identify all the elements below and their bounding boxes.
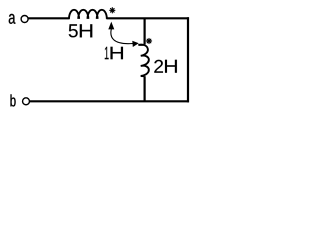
wire: a to inductor L1 [28, 17, 69, 19]
wire: right edge vertical [187, 17, 189, 102]
value label 2H [154, 60, 177, 73]
value label 5H [69, 24, 93, 37]
dot marking (asterisk) of L1 [110, 8, 115, 13]
node a label [9, 14, 16, 24]
mutual coupling right arrowhead [132, 41, 139, 47]
terminal b [23, 98, 30, 105]
inductor L2 2H [138, 45, 148, 77]
wire: bottom from b to right edge [30, 100, 190, 102]
inductor L1 5H [69, 10, 107, 19]
dot marking (asterisk) of L2 [146, 38, 151, 43]
mutual inductance label 1H [105, 47, 123, 59]
wire: bottom lead of L2 branch [144, 76, 146, 102]
wire: L1 to right edge (top) [106, 17, 189, 19]
mutual coupling arc [111, 29, 133, 44]
wire: top lead of L2 branch [144, 18, 146, 44]
node b label [11, 94, 16, 106]
mutual coupling arrow up arrowhead [108, 22, 114, 30]
terminal a [21, 16, 28, 23]
